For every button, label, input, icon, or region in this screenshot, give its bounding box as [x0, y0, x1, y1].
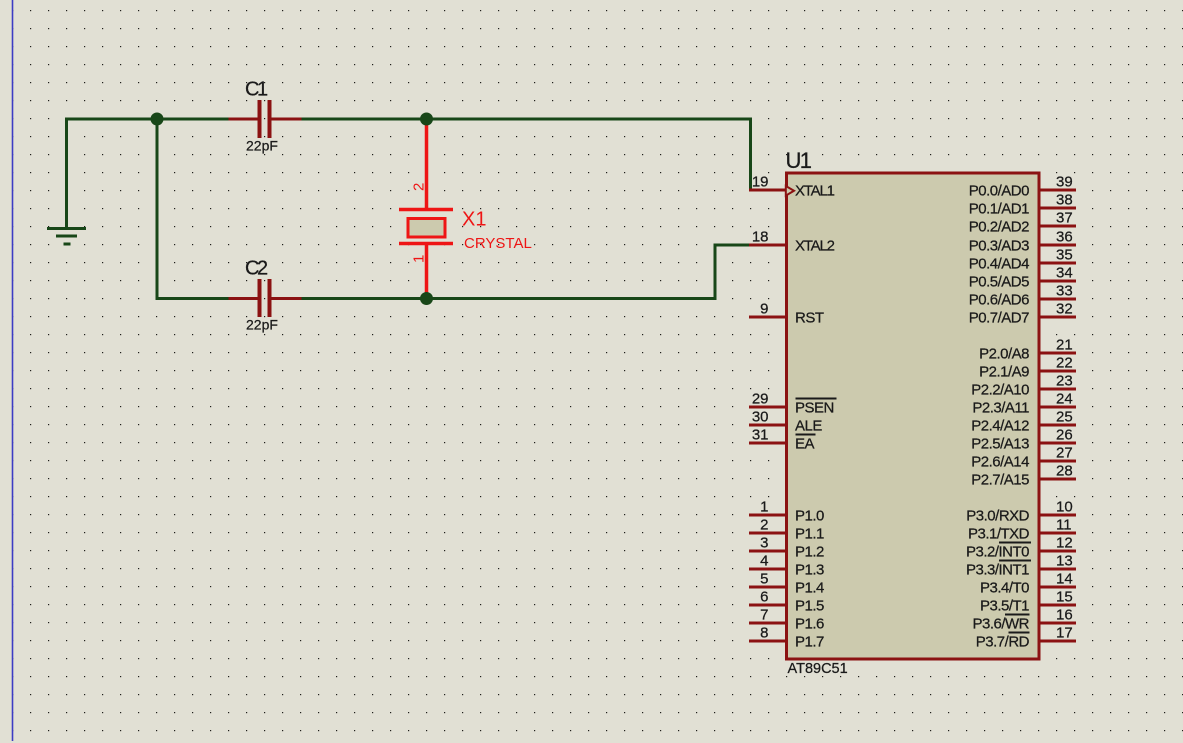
svg-text:28: 28: [1056, 463, 1073, 480]
wire: vertical rise to XTAL2 pin: [714, 244, 717, 301]
pin 1 (P1.0) stub: [749, 514, 786, 517]
pin 15 (P3.5/T1) stub: [1039, 604, 1076, 607]
svg-text:3: 3: [760, 535, 768, 552]
svg-text:CRYSTAL: CRYSTAL: [464, 235, 532, 252]
pin 17 (P3.7/RD) stub: [1039, 640, 1076, 643]
svg-text:P2.6/A14: P2.6/A14: [971, 454, 1029, 471]
svg-text:C1: C1: [245, 79, 268, 101]
pin 28 (P2.7/A15) stub: [1039, 478, 1076, 481]
svg-text:P1.4: P1.4: [795, 580, 824, 597]
pin 37 (P0.2/AD2) stub: [1039, 225, 1076, 228]
svg-text:34: 34: [1056, 265, 1073, 282]
svg-text:18: 18: [752, 229, 769, 246]
svg-text:P3.5/T1: P3.5/T1: [980, 598, 1029, 615]
svg-text:P3.6/WR: P3.6/WR: [972, 616, 1029, 633]
svg-text:8: 8: [760, 625, 768, 642]
capacitor C2: [229, 279, 302, 317]
svg-text:P0.6/AD6: P0.6/AD6: [969, 292, 1029, 309]
svg-text:EA: EA: [795, 436, 815, 453]
pin 4 (P1.3) stub: [749, 568, 786, 571]
svg-text:XTAL1: XTAL1: [795, 183, 835, 200]
pin 18 (XTAL2) stub: [749, 244, 786, 247]
svg-text:XTAL2: XTAL2: [795, 238, 835, 255]
pin 7 (P1.6) stub: [749, 622, 786, 625]
svg-text:P2.4/A12: P2.4/A12: [971, 418, 1029, 435]
svg-text:P1.6: P1.6: [795, 616, 824, 633]
pin 12 (P3.2/INT0) stub: [1039, 550, 1076, 553]
svg-text:27: 27: [1056, 445, 1073, 462]
svg-text:1: 1: [411, 255, 428, 263]
svg-text:10: 10: [1056, 499, 1073, 516]
svg-text:P1.7: P1.7: [795, 634, 824, 651]
wire: vertical drop to XTAL1 pin: [749, 118, 752, 192]
overline for P3.2/INT0: [999, 542, 1031, 544]
svg-text:P0.7/AD7: P0.7/AD7: [969, 310, 1029, 327]
svg-text:23: 23: [1056, 373, 1073, 390]
pin 32 (P0.7/AD7) stub: [1039, 316, 1076, 319]
svg-text:26: 26: [1056, 427, 1073, 444]
svg-text:35: 35: [1056, 247, 1073, 264]
pin 35 (P0.4/AD4) stub: [1039, 262, 1076, 265]
svg-text:P3.3/INT1: P3.3/INT1: [966, 562, 1029, 579]
wire: [270, 118, 752, 121]
svg-text:2: 2: [411, 183, 428, 191]
wire: top horizontal C1 net (XTAL1 net): [65, 118, 259, 121]
XTAL1 clock-input arrow: [786, 186, 794, 196]
pin 16 (P3.6/WR) stub: [1039, 622, 1076, 625]
svg-text:P0.2/AD2: P0.2/AD2: [969, 219, 1029, 236]
wire: horizontal into XTAL2 pin stub: [714, 244, 752, 247]
svg-text:22pF: 22pF: [246, 138, 278, 154]
pin 5 (P1.4) stub: [749, 586, 786, 589]
svg-text:30: 30: [752, 409, 769, 426]
IC U1 AT89C51 body: [787, 173, 1040, 659]
svg-text:P3.2/INT0: P3.2/INT0: [966, 544, 1029, 561]
pin 30 (ALE) stub: [749, 424, 786, 427]
svg-text:P2.5/A13: P2.5/A13: [971, 436, 1029, 453]
svg-text:19: 19: [752, 174, 769, 191]
svg-text:P3.0/RXD: P3.0/RXD: [966, 508, 1029, 525]
svg-text:P0.0/AD0: P0.0/AD0: [969, 183, 1029, 200]
junction node (X1 pin1 / C2 net): [420, 292, 433, 305]
junction node (X1 pin2 / C1 net): [420, 113, 433, 126]
pin 22 (P2.1/A9) stub: [1039, 370, 1076, 373]
pin 19 (XTAL1) stub: [749, 189, 786, 192]
pin 2 (P1.1) stub: [749, 532, 786, 535]
pin 27 (P2.6/A14) stub: [1039, 460, 1076, 463]
svg-text:P0.3/AD3: P0.3/AD3: [969, 238, 1029, 255]
svg-text:22pF: 22pF: [246, 317, 278, 333]
pin 8 (P1.7) stub: [749, 640, 786, 643]
svg-text:PSEN: PSEN: [795, 400, 834, 417]
svg-text:22: 22: [1056, 355, 1073, 372]
svg-text:12: 12: [1056, 535, 1073, 552]
pin 3 (P1.2) stub: [749, 550, 786, 553]
overline for PSEN: [796, 398, 837, 400]
pin 11 (P3.1/TXD) stub: [1039, 532, 1076, 535]
svg-text:P2.7/A15: P2.7/A15: [971, 472, 1029, 489]
svg-text:P1.0: P1.0: [795, 508, 824, 525]
svg-text:7: 7: [760, 607, 768, 624]
overline for P3.7/RD: [1009, 632, 1030, 634]
ground symbol: [47, 227, 86, 246]
pin 25 (P2.4/A12) stub: [1039, 424, 1076, 427]
pin 33 (P0.6/AD6) stub: [1039, 298, 1076, 301]
svg-text:15: 15: [1056, 589, 1073, 606]
wire: [270, 297, 717, 300]
pin 14 (P3.4/T0) stub: [1039, 586, 1076, 589]
svg-text:9: 9: [760, 301, 768, 318]
svg-text:1: 1: [760, 499, 768, 516]
pin 13 (P3.3/INT1) stub: [1039, 568, 1076, 571]
junction node (ground / C1 net): [151, 113, 164, 126]
pin 34 (P0.5/AD5) stub: [1039, 280, 1076, 283]
pin 10 (P3.0/RXD) stub: [1039, 514, 1076, 517]
svg-text:4: 4: [760, 553, 768, 570]
svg-text:36: 36: [1056, 229, 1073, 246]
wire: ground drop at x=66.5: [65, 118, 68, 228]
overline for P3.3/INT1: [999, 560, 1031, 562]
svg-text:P3.4/T0: P3.4/T0: [980, 580, 1029, 597]
svg-text:25: 25: [1056, 409, 1073, 426]
wire: horizontal into XTAL1 pin stub: [749, 189, 754, 192]
svg-text:31: 31: [752, 427, 769, 444]
svg-text:P1.3: P1.3: [795, 562, 824, 579]
svg-text:P1.2: P1.2: [795, 544, 824, 561]
svg-text:P2.3/A11: P2.3/A11: [972, 400, 1029, 417]
svg-text:38: 38: [1056, 192, 1073, 209]
svg-text:P0.5/AD5: P0.5/AD5: [969, 274, 1029, 291]
pin 6 (P1.5) stub: [749, 604, 786, 607]
overline for P3.6/WR: [1005, 614, 1030, 616]
svg-text:21: 21: [1056, 337, 1073, 354]
svg-text:P1.1: P1.1: [795, 526, 824, 543]
svg-text:P3.7/RD: P3.7/RD: [976, 634, 1030, 651]
pin 29 (PSEN) stub: [749, 406, 786, 409]
pin 36 (P0.3/AD3) stub: [1039, 244, 1076, 247]
svg-text:16: 16: [1056, 607, 1073, 624]
wire: C2 horizontal net (XTAL2 net): [156, 297, 260, 300]
svg-text:39: 39: [1056, 174, 1073, 191]
svg-text:33: 33: [1056, 283, 1073, 300]
svg-text:RST: RST: [795, 310, 824, 327]
pin 26 (P2.5/A13) stub: [1039, 442, 1076, 445]
svg-text:17: 17: [1056, 625, 1073, 642]
svg-text:5: 5: [760, 571, 768, 588]
svg-text:32: 32: [1056, 301, 1073, 318]
svg-text:2: 2: [760, 517, 768, 534]
wire: vertical from junction x=157 down to C2 net: [156, 118, 159, 301]
svg-text:P2.1/A9: P2.1/A9: [979, 364, 1029, 381]
pin 21 (P2.0/A8) stub: [1039, 352, 1076, 355]
svg-text:37: 37: [1056, 210, 1073, 227]
svg-text:P3.1/TXD: P3.1/TXD: [968, 526, 1030, 543]
svg-text:14: 14: [1056, 571, 1073, 588]
svg-text:X1: X1: [462, 209, 486, 231]
pin 38 (P0.1/AD1) stub: [1039, 207, 1076, 210]
svg-text:U1: U1: [786, 148, 812, 173]
svg-text:24: 24: [1056, 391, 1073, 408]
svg-text:P2.2/A10: P2.2/A10: [971, 382, 1029, 399]
pin 24 (P2.3/A11) stub: [1039, 406, 1076, 409]
svg-text:11: 11: [1056, 517, 1072, 534]
overline for EA: [796, 434, 816, 436]
capacitor C1: [229, 100, 302, 138]
pin 23 (P2.2/A10) stub: [1039, 388, 1076, 391]
crystal X1: [399, 118, 453, 301]
svg-text:C2: C2: [245, 258, 268, 280]
pin 9 (RST) stub: [749, 316, 786, 319]
svg-text:ALE: ALE: [795, 418, 822, 435]
svg-text:29: 29: [752, 391, 769, 408]
svg-text:AT89C51: AT89C51: [788, 661, 848, 677]
svg-text:6: 6: [760, 589, 768, 606]
pin 39 (P0.0/AD0) stub: [1039, 189, 1076, 192]
svg-text:13: 13: [1056, 553, 1073, 570]
svg-text:P0.4/AD4: P0.4/AD4: [969, 256, 1029, 273]
svg-text:P0.1/AD1: P0.1/AD1: [969, 201, 1029, 218]
svg-text:P1.5: P1.5: [795, 598, 824, 615]
pin 31 (EA) stub: [749, 442, 786, 445]
svg-text:P2.0/A8: P2.0/A8: [979, 346, 1029, 363]
